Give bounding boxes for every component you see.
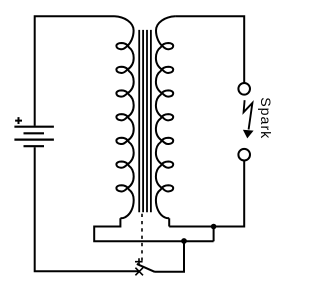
dashed line core to armature	[141, 214, 143, 261]
wire secondary top to spark gap	[175, 16, 244, 83]
interrupter contact X	[135, 268, 143, 276]
primary coil L1	[115, 16, 134, 218]
base bottom plate and left pedestal	[94, 218, 213, 241]
battery B1 plus sign	[15, 117, 22, 124]
battery B1 plates	[14, 127, 54, 147]
right foot of coil stand	[168, 218, 170, 226]
wire top-left from battery positive to primary coil	[35, 16, 115, 125]
interrupter armature arm	[137, 264, 155, 272]
spark gap lower terminal	[238, 149, 250, 161]
armature tip cross	[135, 258, 143, 265]
spark bolt arrowhead	[243, 130, 254, 139]
wire base to secondary ledge	[213, 227, 215, 242]
spark gap upper terminal	[238, 83, 250, 95]
svg-text:Spark: Spark	[257, 97, 273, 139]
iron core laminations	[139, 30, 151, 212]
wire secondary ledge to spark gap	[169, 160, 244, 226]
wire armature to junction	[155, 241, 185, 271]
secondary coil L2	[156, 16, 175, 218]
junction dot on base	[181, 238, 187, 244]
spark bolt zigzag	[244, 100, 253, 129]
wire battery negative to interrupter contact	[35, 147, 140, 271]
junction dot on secondary ledge	[211, 224, 217, 230]
